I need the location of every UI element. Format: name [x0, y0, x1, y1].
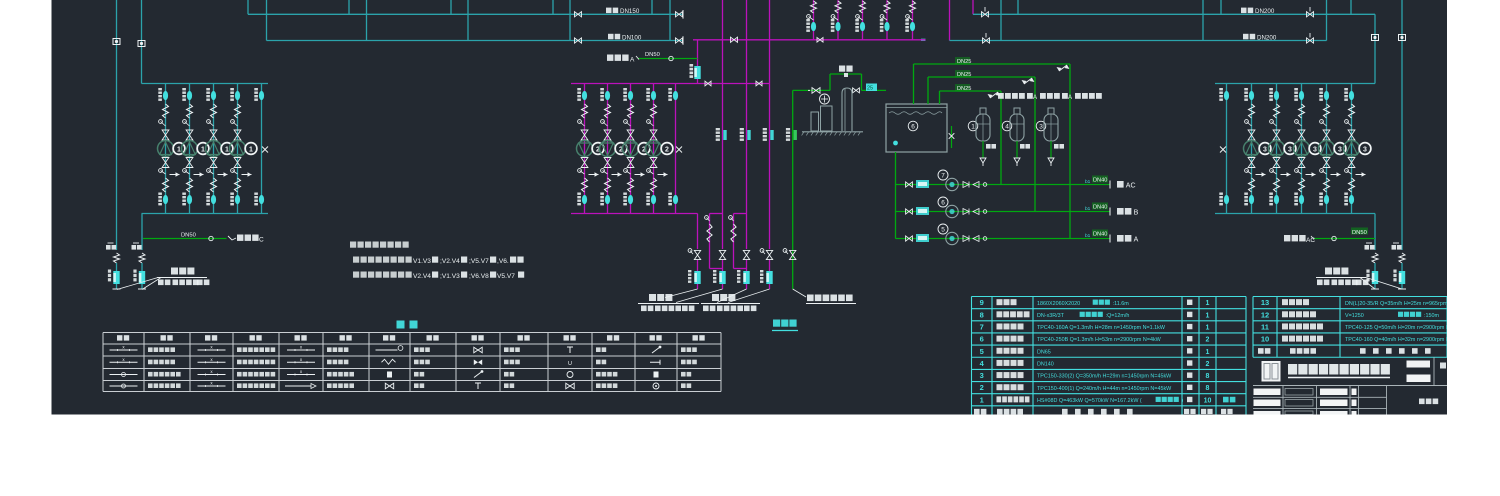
svg-text:3: 3	[1039, 124, 1043, 131]
DN label + union (bottom)	[646, 193, 650, 195]
flow arrow	[1356, 174, 1366, 176]
dosing line 6 y=211.5	[896, 211, 1111, 213]
pump number tag (3)	[1359, 143, 1371, 155]
bypass valve X mark	[676, 147, 682, 153]
DN label + union (top)	[1269, 88, 1273, 90]
vessel (1)	[968, 121, 978, 131]
svg-text:DN200: DN200	[1255, 8, 1275, 15]
pump P2	[646, 141, 662, 157]
svg-text:1: 1	[249, 146, 253, 153]
legend symbol r1c7 (diag)	[652, 347, 660, 353]
svg-text:3: 3	[1313, 146, 1317, 153]
svg-text:DN25: DN25	[957, 86, 971, 92]
valve on riser R2	[138, 41, 145, 47]
end valve of return main	[676, 38, 683, 43]
check valve pair	[963, 182, 969, 188]
title block: divider	[1433, 357, 1435, 385]
pressure gauge (top)	[183, 120, 187, 124]
title block: right field boxes	[1407, 361, 1431, 368]
labels DN200	[1241, 8, 1247, 14]
shutoff valve below pump	[650, 158, 657, 168]
legend name r3c1	[148, 372, 153, 377]
valve on long right riser	[1399, 35, 1406, 41]
riser name tag	[108, 242, 114, 244]
legend symbol r2c2 (line_t)	[198, 361, 226, 363]
wire: right header drop x=1375	[1374, 214, 1376, 251]
instrument on drop + DN250 label	[694, 66, 700, 79]
wire: left riser pipe R1 (vertical)	[116, 0, 118, 250]
dosing tag	[916, 180, 929, 188]
pipe label DN100	[608, 34, 614, 40]
wire: magenta riser M3 x=769	[769, 0, 771, 249]
svg-text:DN100: DN100	[622, 34, 642, 41]
metering pump (6)	[938, 197, 948, 207]
flexible connector (top)	[1274, 104, 1280, 118]
zone-2 chilled label	[712, 294, 719, 301]
DN label + union (bottom)	[230, 193, 234, 195]
shutoff valve below pump	[210, 158, 217, 168]
leader lines to zone-1 label	[117, 278, 158, 290]
title block: drawing number label	[1419, 399, 1425, 405]
legend symbol r4c7 (circdot)	[653, 383, 659, 389]
svg-text:V5.V7: V5.V7	[497, 273, 515, 280]
tank number (6)	[908, 121, 918, 131]
title block: company name (big)	[1288, 364, 1297, 375]
pump number tag (1)	[221, 143, 233, 155]
node C text	[228, 236, 236, 240]
pressure gauge (top)	[1345, 120, 1349, 124]
svg-text:;V1.V3: ;V1.V3	[440, 273, 460, 280]
flexible connector (top)	[651, 104, 657, 118]
legend name r1c5	[504, 347, 509, 352]
legend symbol r4c4 (bowtie)	[385, 383, 393, 389]
pump P3	[1294, 141, 1310, 157]
tank overflow with X valve	[951, 126, 953, 148]
DN label + union (bottom)	[1294, 193, 1298, 195]
svg-text:6: 6	[980, 335, 984, 344]
equipment base line with hatches	[802, 131, 863, 133]
BOM left header row (cut)	[974, 409, 980, 415]
pipe branch at x=1276.5	[1276, 84, 1278, 214]
DN label + union (top)	[182, 88, 186, 90]
legend name r3c2	[237, 372, 242, 377]
flexible connector (bottom)	[187, 178, 193, 192]
wire: riser stub pair 5 to mains	[651, 0, 653, 14]
cut branch at x=862.5	[862, 0, 864, 40]
svg-text:A: A	[1134, 237, 1139, 244]
wire: left riser pipe R2 (vertical, elbows into pump header)	[141, 0, 143, 84]
pump number tag (2)	[638, 143, 650, 155]
gauge on loop	[705, 216, 709, 220]
svg-text:;V5.V7: ;V5.V7	[469, 258, 489, 265]
legend symbol r2c4 (zig)	[382, 359, 396, 364]
shutoff valve above pump	[1323, 130, 1330, 140]
svg-text:10: 10	[1261, 335, 1269, 344]
label: city water make-up	[807, 295, 814, 302]
flow arrow	[658, 174, 668, 176]
svg-text:): )	[1182, 398, 1184, 404]
flexible connector (top)	[187, 104, 193, 118]
valve at start of supply main right	[982, 12, 989, 17]
svg-text:V1.V3: V1.V3	[413, 258, 431, 265]
riser tail at x=116.5	[114, 253, 120, 263]
softener gauge	[820, 94, 830, 104]
svg-text:11: 11	[1261, 322, 1269, 331]
legend name r4c2	[237, 383, 242, 388]
valve on return main	[575, 38, 582, 43]
bypass branch at x=261.5	[261, 84, 263, 214]
svg-text:9: 9	[980, 298, 984, 307]
pressure gauge (top)	[647, 120, 651, 124]
green node-A line	[638, 58, 698, 60]
end valve of supply main	[676, 12, 683, 17]
pipe branch at x=584.5	[584, 84, 586, 214]
svg-text:b1: b1	[1085, 206, 1091, 212]
pressure gauge (bottom)	[578, 169, 582, 173]
dosing line 5 y=238.5	[896, 238, 1111, 240]
wire: supply main right y=14	[973, 13, 1375, 15]
pipe branch at x=213.5	[213, 84, 215, 214]
svg-text:TPC150-330(2) Q=350m/h H=29m: TPC150-330(2) Q=350m/h H=29m n=1450rpm N…	[1037, 374, 1172, 380]
svg-text:3: 3	[980, 371, 984, 380]
svg-text::Q=12m/h: :Q=12m/h	[1106, 313, 1130, 319]
riser bypass loop at x=722.5	[710, 213, 723, 215]
wire: softener inlet line y=90.4	[793, 89, 830, 91]
cut branch at x=813.5	[813, 0, 815, 40]
wire: make-up green line to node C	[143, 238, 227, 240]
tank drain dot	[893, 141, 898, 146]
legend symbol r1c2 (line_t)	[198, 349, 226, 351]
svg-text:TPC40-160A Q=1.3m/h H=28m n=: TPC40-160A Q=1.3m/h H=28m n=1450rpm N=1.…	[1037, 325, 1166, 331]
dosing line 7 y=184.5	[896, 184, 1111, 186]
legend name r4c6	[596, 383, 601, 388]
DN label + union (top)	[1344, 88, 1348, 90]
flexible connector (bottom)	[628, 178, 634, 192]
svg-text:C: C	[259, 237, 264, 244]
pump number tag (2)	[661, 143, 673, 155]
DN label + union (bottom)	[1319, 193, 1323, 195]
legend symbol r2c3 (line_t)	[287, 361, 315, 363]
pump P3	[1344, 141, 1360, 157]
legend name r1c1	[148, 347, 153, 352]
svg-text:DN40: DN40	[1093, 231, 1107, 237]
pump number tag (3)	[1334, 143, 1346, 155]
svg-text:10: 10	[1204, 397, 1212, 404]
legend name r2c5	[504, 360, 509, 365]
DN label + union (top)	[1319, 88, 1323, 90]
legend name r2c3	[327, 360, 332, 365]
svg-text:DN25: DN25	[957, 72, 971, 78]
note line 3: summer mode	[353, 272, 359, 278]
legend table grid	[103, 332, 721, 334]
svg-text:2: 2	[665, 146, 669, 153]
svg-text:8: 8	[980, 310, 984, 319]
shutoff valve below pump	[1248, 158, 1255, 168]
DN25 tag	[866, 84, 877, 92]
flexible connector (bottom)	[1249, 178, 1255, 192]
svg-text:DN50: DN50	[181, 233, 196, 239]
pump P3	[1269, 141, 1285, 157]
zone-2 label right	[1325, 268, 1332, 275]
shutoff valve above pump	[1273, 130, 1280, 140]
wire: magenta drop to return main x=949.5	[949, 0, 951, 41]
note line 1: control description title	[350, 242, 356, 248]
pump P2	[577, 141, 593, 157]
green node AC line right	[1313, 238, 1375, 240]
title block: lower grid	[1253, 385, 1447, 387]
legend name r1c7	[681, 347, 686, 352]
pump P1	[206, 141, 222, 157]
riser name tag	[133, 242, 139, 244]
pressure gauge (top)	[601, 120, 605, 124]
legend symbol r4c6 (bowtie)	[566, 383, 574, 389]
DN label + union (bottom)	[1344, 193, 1348, 195]
note line 2: winter mode	[353, 257, 359, 263]
leader to city water label	[793, 289, 806, 297]
svg-text:DN65: DN65	[1037, 349, 1051, 355]
legend symbol r3c6 (circ)	[567, 372, 573, 378]
flexible connector (bottom)	[235, 178, 241, 192]
wire: riser stub pair 4 to mains	[552, 0, 554, 14]
legend symbol r1c6 (tee)	[569, 347, 571, 353]
svg-text:V=1250: V=1250	[1345, 313, 1364, 319]
svg-text:DN40: DN40	[1093, 204, 1107, 210]
pressure gauge (top)	[1295, 120, 1299, 124]
wire: riser stub pair 1 to mains	[247, 0, 249, 14]
riser tail at x=1375	[1372, 253, 1378, 263]
node label B	[1117, 208, 1124, 215]
valve	[906, 236, 913, 241]
valve on supply main	[575, 12, 582, 17]
metering pump (7)	[938, 170, 948, 180]
DN label + union (bottom)	[206, 193, 210, 195]
shutoff valve below pump	[162, 158, 169, 168]
pipe branch at x=653.5	[653, 84, 655, 214]
svg-text:AC: AC	[1126, 183, 1136, 190]
legend symbol r1c3 (line_t)	[287, 349, 315, 351]
legend header cells	[117, 335, 122, 340]
svg-text:U: U	[568, 361, 572, 367]
svg-text:3: 3	[1263, 146, 1267, 153]
DN label + union (top)	[1294, 88, 1298, 90]
svg-text:12: 12	[1261, 310, 1269, 319]
pressure gauge (bottom)	[624, 169, 628, 173]
wire: riser stub pair 3 to mains	[450, 0, 452, 14]
shutoff valve below pump	[186, 158, 193, 168]
legend symbol r3c7 (dbl)	[654, 372, 659, 378]
legend symbol r3c4 (dbl)	[387, 372, 392, 378]
size labels on mid risers y=128-142	[716, 128, 720, 130]
svg-text:5: 5	[941, 227, 945, 234]
pump number tag (3)	[1259, 143, 1271, 155]
cap at end of distribution header	[921, 39, 926, 41]
flexible connector (top)	[163, 104, 169, 118]
flexible connector (bottom)	[1324, 178, 1330, 192]
shutoff valve below pump	[627, 158, 634, 168]
pump number tag (1)	[173, 143, 185, 155]
legend name r1c4	[414, 347, 419, 352]
shutoff valve above pump	[1248, 130, 1255, 140]
salt barrel	[842, 88, 852, 131]
pressure gauge (bottom)	[601, 169, 605, 173]
pump P1	[182, 141, 198, 157]
wire: right feed drop x=1375	[1374, 14, 1376, 83]
svg-text:DN25: DN25	[957, 59, 971, 65]
svg-text:;V2.V4: ;V2.V4	[440, 258, 460, 265]
legend symbol r1c1 (line_t)	[110, 349, 138, 351]
svg-text:DN150: DN150	[620, 8, 640, 15]
riser stub pair right 2	[1326, 0, 1328, 41]
junction valve on header 2	[817, 38, 823, 43]
shutoff valve below pump	[604, 158, 611, 168]
diagonal globe valves at feed corners	[1059, 65, 1067, 71]
shutoff valve below pump	[1323, 158, 1330, 168]
flexible connector (bottom)	[1299, 178, 1305, 192]
legend name r2c2	[237, 360, 242, 365]
svg-text:4: 4	[1005, 124, 1009, 131]
flow arrow	[170, 174, 180, 176]
pressure gauge (bottom)	[1270, 169, 1274, 173]
flow arrow	[635, 174, 645, 176]
DN label + union (top)	[577, 88, 581, 90]
DN label + union (top)	[600, 88, 604, 90]
zone-1 label: building-1 secondary pumps	[171, 268, 178, 275]
legend name r1c2	[237, 347, 242, 352]
legend symbol r2c7 (bar)	[650, 361, 660, 363]
legend symbol r3c5 (diag)	[474, 372, 482, 378]
flex connector on loop leg	[707, 224, 712, 242]
legend symbol r4c2 (line_t)	[198, 385, 226, 387]
drawing background	[52, 0, 1448, 415]
shutoff valve above pump	[186, 130, 193, 140]
wire: mid header drop x=697	[697, 214, 699, 250]
flexible connector (bottom)	[211, 178, 217, 192]
water level wavy line	[889, 112, 942, 115]
shutoff valve above pump	[627, 130, 634, 140]
legend name r4c7	[681, 383, 686, 388]
instrument on green riser	[786, 128, 790, 130]
label DN50	[1351, 228, 1368, 235]
valve on node-A line	[669, 56, 673, 60]
flexible connector (bottom)	[163, 178, 169, 192]
pressure tank labels text row	[998, 93, 1004, 99]
check valve pair	[963, 209, 969, 215]
dosing tag	[916, 234, 929, 242]
leader lines zone-2 right	[1360, 278, 1375, 290]
flexible connector (bottom)	[651, 178, 657, 192]
DN label + union (bottom)	[600, 193, 604, 195]
svg-text:,V6.: ,V6.	[497, 258, 509, 265]
svg-text:1: 1	[980, 395, 984, 404]
pressure gauge (bottom)	[183, 169, 187, 173]
legend name r1c3	[327, 347, 332, 352]
wire: right pump group discharge header	[1215, 213, 1375, 215]
svg-text:TPC150-400(1) Q=240m/h H=44m: TPC150-400(1) Q=240m/h H=44m n=1450rpm N…	[1037, 386, 1172, 392]
DN label + union (bottom)	[182, 193, 186, 195]
pipe branch at x=607.5	[607, 84, 609, 214]
wire: left pump group suction header	[142, 83, 269, 85]
pump number tag (1)	[197, 143, 209, 155]
riser stub pair right 0	[1000, 0, 1002, 41]
legend symbol r4c5 (tee)	[477, 383, 479, 389]
flow arrow	[1306, 174, 1316, 176]
shutoff valve below pump	[1273, 158, 1280, 168]
flexible connector (top)	[582, 104, 588, 118]
svg-text:A: A	[630, 57, 635, 64]
svg-text::150m: :150m	[1424, 313, 1439, 319]
junction valve on header	[731, 37, 738, 42]
gauge on loop	[729, 216, 733, 220]
svg-text:DN200: DN200	[1257, 34, 1277, 41]
pump number tag (2)	[592, 143, 604, 155]
legend symbol r2c1 (line_t)	[110, 361, 138, 363]
title block: filled cells	[1254, 389, 1281, 396]
riser name tag	[1393, 242, 1399, 244]
wire: tank bottom drop to dosing lines x=895	[895, 152, 897, 239]
shutoff valve below pump	[581, 158, 588, 168]
svg-text:B: B	[1134, 210, 1139, 217]
title block: company logo	[1262, 361, 1281, 382]
flow arrow	[242, 174, 252, 176]
pump P3	[1319, 141, 1335, 157]
pressure gauge (top)	[624, 120, 628, 124]
pump P2	[600, 141, 616, 157]
svg-text:DN40: DN40	[1093, 177, 1107, 183]
pipe branch at x=1301.5	[1301, 84, 1303, 214]
shutoff valve above pump	[604, 130, 611, 140]
DN label + union (top)	[206, 88, 210, 90]
legend name r4c5	[504, 383, 509, 388]
DN label + union (bottom)	[158, 193, 162, 195]
node A text	[607, 55, 613, 61]
svg-text:A: A	[1068, 95, 1072, 101]
flow arrow	[1256, 174, 1266, 176]
valve on green riser	[783, 249, 787, 253]
pump number tag (1)	[245, 143, 257, 155]
svg-text:TPC40-250B Q=1.3m/h H=53m n=: TPC40-250B Q=1.3m/h H=53m n=2900rpm N=4k…	[1037, 337, 1162, 343]
riser tail at x=1402	[1399, 253, 1405, 263]
wire: mid pump group suction header	[571, 83, 770, 85]
svg-text:AC: AC	[1306, 237, 1315, 244]
wire: drop from header to pump suction x=697	[697, 40, 699, 84]
bypass valve X mark	[262, 147, 268, 153]
pump P2	[623, 141, 639, 157]
DN label + union (bottom)	[1269, 193, 1273, 195]
vessel (3)	[1036, 121, 1046, 131]
legend symbol r4c3 (longline_c)	[285, 385, 311, 387]
vessel (4)	[1002, 121, 1012, 131]
valve	[906, 182, 913, 187]
legend symbol r3c1 (line_o)	[110, 374, 138, 376]
svg-text:DN140: DN140	[1037, 362, 1054, 368]
flexible connector (bottom)	[1274, 178, 1280, 192]
BOM left table grid	[972, 296, 1247, 298]
pipe branch at x=1251.5	[1251, 84, 1253, 214]
dosing tag	[916, 207, 929, 215]
valve on right feed drop	[1372, 35, 1379, 41]
shutoff valve above pump	[1348, 130, 1355, 140]
riser tail at x=142	[139, 253, 145, 263]
pipe branch at x=1326.5	[1326, 84, 1328, 214]
pump number tag (3)	[1309, 143, 1321, 155]
pump P1	[230, 141, 246, 157]
svg-text:;V6.V8: ;V6.V8	[469, 273, 489, 280]
svg-text:6: 6	[911, 124, 915, 131]
legend name r4c4	[414, 383, 419, 388]
metering pump (5)	[938, 224, 948, 234]
flow arrow	[612, 174, 622, 176]
shutoff valve above pump	[162, 130, 169, 140]
